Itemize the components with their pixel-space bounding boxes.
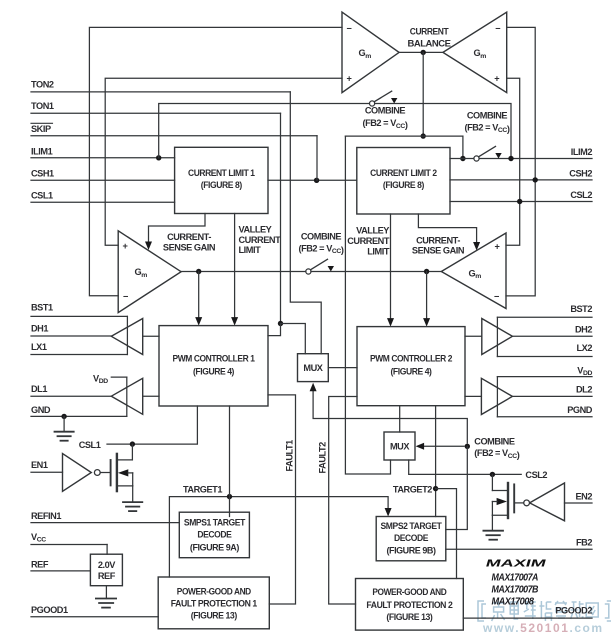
node CB to current-limit-2 input	[460, 156, 465, 161]
pin TON1	[31, 101, 281, 113]
wire TARGET2 from PWM2	[435, 406, 437, 517]
switch COMBINE top-left	[370, 91, 398, 106]
svg-text:(FIGURE 9B): (FIGURE 9B)	[387, 546, 436, 556]
svg-text:CSL1: CSL1	[79, 440, 101, 450]
pin CSL1	[31, 191, 175, 203]
svg-text:LIMIT: LIMIT	[367, 247, 390, 257]
wire FAULT1	[268, 395, 296, 604]
block PWM CONTROLLER 1	[159, 326, 268, 406]
wire TON1 down	[280, 113, 282, 323]
wire COMBINE to SMPS2 decode	[446, 446, 468, 529]
wire sense1 output	[181, 271, 305, 273]
switch COMBINE at ILIM2	[474, 146, 502, 161]
block PWM CONTROLLER 2	[357, 327, 465, 406]
svg-text:ILIM1: ILIM1	[31, 147, 53, 157]
wire sense outputs joined	[311, 271, 441, 273]
label COMBINE FB2=VCC bottom	[474, 436, 519, 460]
svg-text:(FIGURE 8): (FIGURE 8)	[201, 180, 242, 190]
svg-text:VALLEY: VALLEY	[239, 224, 272, 234]
node sense1 output	[196, 269, 201, 274]
inverter EN1	[63, 454, 111, 492]
node CSL2 tap	[490, 472, 495, 477]
label MAX17008	[492, 596, 535, 607]
svg-text:FAULT PROTECTION 2: FAULT PROTECTION 2	[366, 600, 452, 610]
svg-text:FAULT2: FAULT2	[318, 442, 328, 474]
pin GND	[31, 405, 127, 417]
op-amp current-sense Gm left	[118, 231, 181, 313]
wire MUX2 to PWM2	[399, 406, 401, 432]
svg-text:SENSE GAIN: SENSE GAIN	[412, 245, 465, 255]
wire valley current limit 2	[387, 214, 394, 327]
svg-text:CURRENT: CURRENT	[347, 236, 390, 246]
pin BST1	[31, 303, 127, 317]
wire CSL2 sense to MUX2	[409, 460, 522, 474]
label FAULT2	[318, 442, 328, 474]
block SMPS1 TARGET DECODE	[179, 512, 249, 558]
svg-text:VCC: VCC	[31, 532, 46, 544]
node COMBINE select	[465, 444, 470, 449]
block SMPS2 TARGET DECODE	[376, 517, 446, 561]
block MUX2	[384, 432, 415, 460]
node CSL1 tap	[130, 441, 135, 446]
node skip tie	[314, 178, 319, 183]
svg-text:Gm: Gm	[359, 48, 372, 60]
wire sense1 to PWM1	[195, 272, 202, 326]
block CURRENT LIMIT 2	[357, 148, 450, 215]
label COMBINE FB2=VCC middle	[298, 232, 343, 255]
wire COMBINE to MUX2	[416, 443, 464, 450]
svg-text:COMBINE: COMBINE	[301, 232, 342, 242]
wire CB output down	[422, 52, 424, 136]
pin REF	[31, 560, 90, 571]
svg-text:CSL2: CSL2	[570, 190, 592, 200]
svg-text:(FB2 = VCC): (FB2 = VCC)	[362, 118, 407, 130]
logo MAXIM	[484, 559, 547, 570]
wire sense2 to PWM2	[423, 272, 430, 327]
svg-text:PWM CONTROLLER 2: PWM CONTROLLER 2	[370, 354, 452, 364]
pin VDD	[497, 366, 592, 378]
svg-text:REF: REF	[31, 560, 49, 570]
svg-text:CURRENT: CURRENT	[239, 235, 282, 245]
transistor EN2 NMOS	[492, 474, 514, 530]
wire TARGET1 from PWM1	[229, 406, 231, 517]
ground at REF block	[96, 586, 116, 608]
wire TON1 into PWM1	[268, 324, 281, 336]
svg-text:POWER-GOOD AND: POWER-GOOD AND	[177, 587, 252, 597]
svg-text:SMPS2 TARGET: SMPS2 TARGET	[381, 521, 443, 531]
pin ILIM1	[31, 147, 175, 158]
driver DH2	[465, 317, 512, 356]
svg-text:FAULT PROTECTION 1: FAULT PROTECTION 1	[171, 599, 257, 609]
svg-text:DL1: DL1	[31, 384, 47, 394]
svg-text:−: −	[494, 292, 499, 302]
node CSH2 junction	[533, 177, 538, 182]
wire MUX1 output to PWM2	[328, 367, 357, 369]
label CSL2	[525, 470, 547, 480]
node ILIM2 tie	[508, 156, 513, 161]
wire ILIM1 up and over to switch	[159, 104, 370, 158]
svg-text:COMBINE: COMBINE	[474, 436, 515, 446]
svg-text:CSH1: CSH1	[31, 168, 54, 178]
svg-text:TARGET1: TARGET1	[183, 485, 222, 495]
label TARGET2	[393, 484, 432, 494]
pin VCC	[31, 532, 107, 544]
svg-text:GND: GND	[31, 405, 51, 415]
wire CB left drop to MUX2	[345, 136, 390, 474]
node TON1 branch	[278, 321, 283, 326]
wire valley current limit 1	[231, 214, 238, 326]
svg-text:LIMIT: LIMIT	[239, 245, 262, 255]
pin PGND	[497, 405, 592, 417]
inverter EN2	[514, 483, 564, 521]
svg-text:(FB2 = VCC): (FB2 = VCC)	[464, 123, 509, 135]
pin LX2	[497, 343, 592, 357]
block POWER-GOOD AND FAULT PROTECTION 1	[158, 577, 269, 629]
label COMBINE FB2=VCC top-right	[464, 111, 509, 135]
label MAX17007A	[492, 573, 539, 584]
wire CB left plus input to sense-amp plus	[105, 78, 342, 245]
svg-text:REFIN1: REFIN1	[31, 511, 61, 521]
svg-text:+: +	[123, 241, 128, 251]
node GND junction	[61, 414, 66, 419]
node TARGET1	[227, 494, 232, 499]
wire CSL1 to PWM1	[107, 406, 197, 444]
wire current-sense-gain drive right	[418, 214, 480, 251]
label CURRENT-SENSE GAIN right	[412, 236, 465, 256]
svg-text:EN1: EN1	[31, 460, 48, 470]
pin EN2	[565, 491, 593, 503]
svg-text:COMBINE: COMBINE	[467, 111, 508, 121]
wire current-limit-1 output to current-limit-2	[268, 179, 357, 181]
block 2.0V REF	[90, 554, 122, 586]
label COMBINE FB2=VCC top-left	[362, 105, 407, 129]
node sense2 output	[424, 269, 429, 274]
svg-text:MUX: MUX	[303, 363, 323, 373]
svg-text:DECODE: DECODE	[394, 533, 428, 543]
svg-text:(FIGURE 4): (FIGURE 4)	[391, 366, 432, 376]
svg-text:VDD: VDD	[577, 366, 592, 378]
label VALLEY CURRENT LIMIT left	[239, 224, 282, 255]
label CSL1	[79, 440, 101, 450]
svg-text:REF: REF	[98, 571, 116, 581]
node CB on crossbar	[421, 133, 426, 138]
pin FB2	[446, 537, 593, 549]
svg-text:CSL1: CSL1	[31, 191, 53, 201]
pin PGOOD1	[31, 605, 158, 617]
svg-text:2.0V: 2.0V	[98, 560, 116, 570]
node CB output	[421, 50, 426, 55]
svg-text:TON2: TON2	[31, 80, 54, 90]
driver DL1	[111, 377, 159, 416]
ground at EN1 transistor	[123, 502, 142, 511]
svg-text:CURRENT LIMIT 1: CURRENT LIMIT 1	[188, 168, 255, 178]
label CURRENT-SENSE GAIN left	[163, 232, 216, 252]
svg-text:DH1: DH1	[31, 323, 48, 333]
svg-text:+: +	[495, 242, 500, 252]
svg-text:ILIM2: ILIM2	[571, 147, 593, 157]
node CSL2 junction	[517, 199, 522, 204]
pin CSH1	[31, 168, 175, 180]
svg-text:BST2: BST2	[570, 304, 592, 314]
label MAX17007B	[492, 585, 539, 596]
svg-text:SENSE GAIN: SENSE GAIN	[163, 243, 216, 253]
pin DL1	[31, 384, 111, 396]
svg-text:MUX: MUX	[390, 442, 410, 452]
svg-text:CURRENT LIMIT 2: CURRENT LIMIT 2	[370, 168, 437, 178]
op-amp current-sense Gm right	[441, 233, 506, 309]
pin TON2	[31, 80, 290, 92]
svg-text:MAX17007A: MAX17007A	[492, 573, 539, 584]
svg-text:(FIGURE 4): (FIGURE 4)	[193, 366, 234, 376]
svg-text:+: +	[494, 74, 499, 84]
svg-text:(FIGURE 13): (FIGURE 13)	[191, 610, 237, 620]
svg-text:Gm: Gm	[474, 48, 487, 60]
watermark chinese characters	[478, 601, 611, 621]
svg-text:LX1: LX1	[31, 342, 47, 352]
label TARGET1	[183, 485, 222, 495]
svg-text:TARGET2: TARGET2	[393, 484, 432, 494]
ground at GND pin	[55, 416, 74, 440]
svg-text:BST1: BST1	[31, 303, 53, 313]
label VDD left	[93, 373, 127, 385]
svg-text:−: −	[495, 24, 500, 34]
driver DL2	[465, 377, 512, 417]
svg-text:VDD: VDD	[93, 373, 108, 385]
svg-text:(FB2 = VCC): (FB2 = VCC)	[474, 448, 519, 460]
svg-text:CURRENT: CURRENT	[410, 27, 449, 37]
block POWER-GOOD AND FAULT PROTECTION 2	[356, 579, 464, 631]
svg-text:−: −	[123, 292, 128, 302]
svg-text:EN2: EN2	[575, 491, 592, 501]
pin PGOOD2	[463, 606, 592, 619]
svg-text:MAXIM: MAXIM	[484, 559, 547, 570]
pin SKIP	[31, 123, 317, 135]
pin DH1	[31, 323, 111, 336]
svg-text:DH2: DH2	[575, 324, 592, 334]
wire COMBINE select	[310, 383, 468, 443]
svg-text:MAX17008: MAX17008	[492, 596, 535, 607]
wire TARGET2 to power-good2	[436, 489, 457, 579]
svg-text:POWER-GOOD AND: POWER-GOOD AND	[372, 587, 447, 597]
wire switch to ILIM2 drop	[375, 104, 511, 159]
svg-text:PWM CONTROLLER 1: PWM CONTROLLER 1	[173, 354, 255, 364]
wire CB apexes joined	[399, 51, 443, 53]
node ILIM1 junction	[156, 155, 161, 160]
svg-text:+: +	[347, 74, 352, 84]
svg-text:DECODE: DECODE	[197, 530, 231, 540]
svg-text:PGND: PGND	[567, 405, 593, 415]
driver DH1	[111, 316, 159, 354]
svg-text:TON1: TON1	[31, 101, 54, 111]
svg-text:(FIGURE 13): (FIGURE 13)	[386, 612, 432, 622]
svg-text:−: −	[347, 24, 352, 34]
watermark url www.520101.com	[482, 621, 604, 635]
wire current-sense-gain drive left	[145, 214, 205, 251]
svg-text:CSL2: CSL2	[525, 470, 547, 480]
wire CB crossbar	[345, 135, 463, 137]
wire CB right minus to CSH2 and sense2 minus	[506, 27, 535, 296]
wire TON2 to MUX1	[290, 92, 321, 354]
op-amp current-balance Gm right	[443, 12, 507, 93]
pin REFIN1	[31, 511, 179, 523]
wire TON1 to MUX1	[281, 324, 306, 354]
pin BST2	[497, 304, 592, 317]
svg-text:PGOOD2: PGOOD2	[555, 606, 592, 616]
svg-text:(FIGURE 9A): (FIGURE 9A)	[190, 542, 239, 552]
label VALLEY CURRENT LIMIT right	[347, 226, 390, 257]
svg-text:FAULT1: FAULT1	[285, 440, 295, 472]
wire SKIP drop	[316, 136, 318, 181]
pin CSH2	[450, 169, 592, 180]
svg-text:CURRENT-: CURRENT-	[167, 232, 211, 242]
wire VCC to REF block	[106, 545, 108, 555]
svg-text:FB2: FB2	[576, 537, 592, 547]
svg-text:SKIP: SKIP	[31, 124, 51, 134]
pin EN1	[31, 460, 63, 472]
svg-text:PGOOD1: PGOOD1	[31, 605, 68, 615]
svg-text:Gm: Gm	[135, 267, 148, 279]
svg-text:(FIGURE 8): (FIGURE 8)	[383, 180, 424, 190]
ground at EN2 transistor	[483, 531, 503, 540]
label CURRENT BALANCE	[408, 27, 451, 49]
svg-text:(FB2 = VCC): (FB2 = VCC)	[298, 243, 343, 255]
wire CB left minus input to sense-amp minus	[89, 27, 342, 295]
svg-text:MAX17007B: MAX17007B	[492, 585, 539, 596]
svg-text:VALLEY: VALLEY	[356, 226, 389, 236]
node TARGET2	[433, 486, 438, 491]
block MUX1	[298, 354, 329, 382]
wire CB right plus to CSL2 and sense2 plus	[506, 78, 520, 245]
wire CB right drop to ILIM2 net	[462, 136, 464, 158]
switch COMBINE middle	[306, 259, 334, 274]
svg-text:Gm: Gm	[469, 269, 482, 281]
op-amp current-balance Gm left	[342, 12, 399, 93]
block CURRENT LIMIT 1	[175, 147, 268, 213]
wire FAULT2	[329, 397, 357, 605]
pin LX1	[31, 342, 127, 355]
pin ILIM2	[479, 147, 592, 158]
svg-text:CURRENT-: CURRENT-	[416, 236, 460, 246]
wire ILIM2 into current limit 2	[450, 158, 474, 160]
svg-text:LX2: LX2	[577, 343, 593, 353]
pin CSL2	[450, 190, 592, 201]
pin DH2	[512, 324, 592, 336]
wire TARGET1 rail	[169, 497, 391, 577]
svg-text:CSH2: CSH2	[569, 169, 592, 179]
transistor EN1 NMOS	[111, 444, 133, 502]
svg-text:DL2: DL2	[576, 385, 592, 395]
pin DL2	[512, 385, 592, 397]
svg-text:BALANCE: BALANCE	[408, 39, 451, 49]
label FAULT1	[285, 440, 295, 472]
svg-text:COMBINE: COMBINE	[365, 105, 406, 115]
svg-text:SMPS1 TARGET: SMPS1 TARGET	[184, 518, 246, 528]
